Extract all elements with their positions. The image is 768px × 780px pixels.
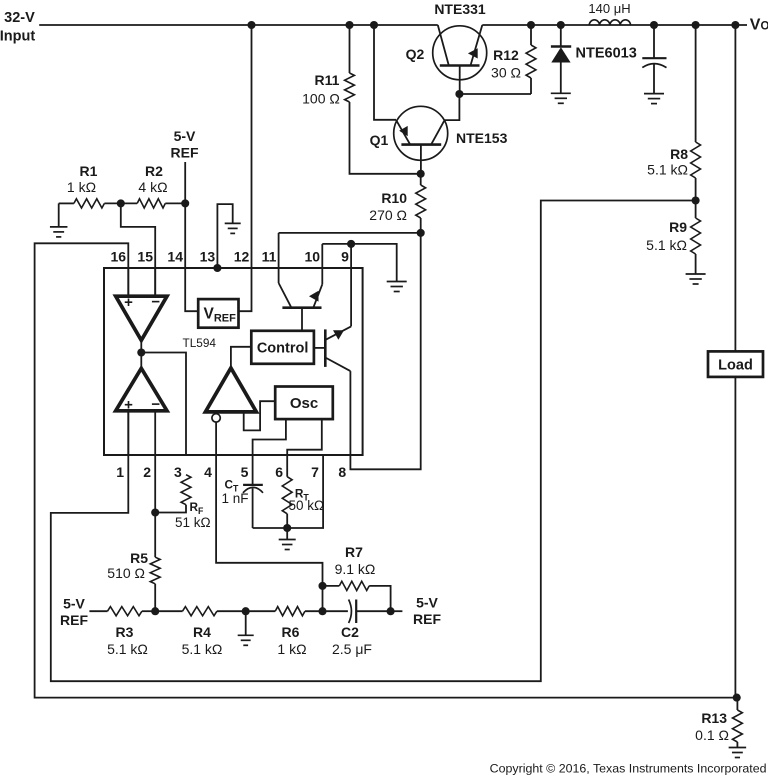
svg-text:R11: R11 xyxy=(315,72,340,88)
svg-text:R7: R7 xyxy=(345,544,363,560)
wire Load to R13 node xyxy=(734,377,736,698)
transistor internal T1 xyxy=(279,283,323,331)
node R10 bottom junction xyxy=(417,229,425,237)
ground R1 xyxy=(50,203,67,237)
wire R10 node to pin 8 xyxy=(350,233,420,469)
svg-text:510 Ω: 510 Ω xyxy=(107,565,145,581)
wire pin 2 into amp2 xyxy=(154,411,156,455)
wire R11 bottom to Q1 base node xyxy=(350,102,421,174)
svg-text:REF: REF xyxy=(171,145,199,161)
transistor Q1 xyxy=(370,106,508,174)
node pin 13 junction on IC edge xyxy=(213,264,221,272)
svg-text:R12: R12 xyxy=(493,47,519,63)
node R4 R6 ground junction xyxy=(242,607,250,615)
svg-text:Q1: Q1 xyxy=(370,132,389,148)
ground emitter common xyxy=(387,282,407,292)
resistor R3 xyxy=(107,607,148,657)
svg-text:2: 2 xyxy=(143,464,151,480)
ground R4 R6 node xyxy=(238,611,254,645)
resistor R12 xyxy=(491,25,536,94)
svg-text:9.1 kΩ: 9.1 kΩ xyxy=(335,561,376,577)
node pin 2 RF junction xyxy=(151,508,159,516)
svg-text:+: + xyxy=(124,294,133,311)
node R1 R2 junction xyxy=(117,199,125,207)
svg-text:R2: R2 xyxy=(145,163,163,179)
svg-text:TL594: TL594 xyxy=(183,336,217,350)
resistor R10 xyxy=(369,174,425,233)
node switch node junction diode xyxy=(557,21,565,29)
svg-text:Q2: Q2 xyxy=(406,46,425,62)
svg-text:R5: R5 xyxy=(130,550,148,566)
IC TL594 body xyxy=(104,268,363,455)
svg-text:R1: R1 xyxy=(80,163,98,179)
svg-text:12: 12 xyxy=(234,249,250,265)
resistor R1 xyxy=(59,163,121,208)
svg-text:5.1 kΩ: 5.1 kΩ xyxy=(182,641,223,657)
wire pin 7 to ground node xyxy=(287,455,323,528)
capacitor C2 xyxy=(323,600,391,658)
node R2 5-V REF junction xyxy=(181,199,189,207)
svg-text:NTE331: NTE331 xyxy=(434,1,486,17)
resistor R6 xyxy=(275,607,306,657)
wire pin 4 DTC xyxy=(215,422,217,456)
wire amp outputs feedback stem xyxy=(140,340,142,368)
wire pin 15 into amp1 xyxy=(154,268,156,296)
wire 5-V REF to pin 14 VREF xyxy=(185,162,198,311)
op-amp error amplifier 2 xyxy=(116,368,167,413)
svg-text:R6: R6 xyxy=(282,624,300,640)
wire R1-R2 junction to pin 15 xyxy=(121,203,155,296)
resistor R4 xyxy=(182,607,223,657)
wire pin 10 emitter T1 xyxy=(321,244,323,284)
inductor L1 140uH xyxy=(588,1,630,25)
resistor R8 xyxy=(647,25,700,201)
ground R9 xyxy=(686,274,706,284)
op-amp error amplifier 1 xyxy=(116,294,167,341)
wire ground node to R6 xyxy=(246,610,276,612)
svg-text:1 nF: 1 nF xyxy=(222,491,249,506)
node Vo terminal junction xyxy=(731,21,739,29)
svg-text:1 kΩ: 1 kΩ xyxy=(277,641,306,657)
load box xyxy=(708,351,763,377)
svg-text:Copyright © 2016, Texas Instru: Copyright © 2016, Texas Instruments Inco… xyxy=(490,762,767,776)
node 5-V REF bottom-right label xyxy=(413,595,441,628)
wire pin 1 into amp2 xyxy=(127,411,129,455)
resistor R13 xyxy=(695,698,742,748)
resistor RT xyxy=(282,477,324,528)
resistor R9 xyxy=(646,201,700,275)
svg-text:1: 1 xyxy=(116,464,124,480)
node R6 C2 R7 junction xyxy=(318,607,326,615)
node Q1 base junction xyxy=(417,170,425,178)
wire pin 16 into amp1 xyxy=(127,268,129,296)
wire pin 9 emitter T2 xyxy=(350,244,352,327)
wire junction to R4 xyxy=(155,610,182,612)
resistor R2 xyxy=(121,163,185,208)
svg-text:4 kΩ: 4 kΩ xyxy=(138,179,167,195)
svg-text:Load: Load xyxy=(718,358,753,374)
node rail junction to R11 xyxy=(345,21,353,29)
node R7 left junction xyxy=(318,582,326,590)
resistor R11 xyxy=(302,25,354,107)
ground pin 13 xyxy=(225,223,241,233)
node R13 top junction xyxy=(733,694,741,702)
svg-text:5.1 kΩ: 5.1 kΩ xyxy=(647,162,688,178)
copyright text xyxy=(490,762,767,776)
svg-text:5-V: 5-V xyxy=(174,128,196,144)
svg-text:6: 6 xyxy=(275,464,283,480)
svg-text:2.5 μF: 2.5 μF xyxy=(332,641,372,657)
wire Osc to pin 5 CT xyxy=(253,419,286,485)
svg-text:4: 4 xyxy=(204,464,212,480)
wire feedback to pin 3 xyxy=(141,353,186,456)
comparator PWM xyxy=(205,368,256,422)
node feedback junction xyxy=(137,348,145,356)
svg-text:270 Ω: 270 Ω xyxy=(369,207,407,223)
wire Vo to Load xyxy=(734,25,736,351)
wire R10 node to pin 11 xyxy=(279,232,421,234)
svg-text:5.1 kΩ: 5.1 kΩ xyxy=(107,641,148,657)
node R3 R4 R5 junction xyxy=(151,607,159,615)
node switch node junction R12 xyxy=(527,21,535,29)
svg-text:50 kΩ: 50 kΩ xyxy=(289,498,325,513)
wire 32-V rail right section (switch node to Vo) xyxy=(482,24,747,26)
svg-text:7: 7 xyxy=(311,464,319,480)
wire pin 12 VCC from rail xyxy=(239,25,252,311)
block Control xyxy=(251,331,314,364)
wire pin 13 to ground xyxy=(217,204,232,268)
svg-text:R13: R13 xyxy=(701,710,727,726)
node pin 9 junction xyxy=(347,240,355,248)
svg-text:Osc: Osc xyxy=(290,395,318,412)
svg-text:5-V: 5-V xyxy=(63,596,85,612)
node Vo label xyxy=(750,17,768,34)
svg-text:32-V: 32-V xyxy=(4,10,35,26)
svg-text:10: 10 xyxy=(305,249,321,265)
wire feedback divider to pin 1 loop xyxy=(51,201,696,682)
svg-text:Control: Control xyxy=(257,341,309,357)
svg-text:Input: Input xyxy=(0,29,35,45)
wire R3 to junction xyxy=(142,610,155,612)
svg-text:51 kΩ: 51 kΩ xyxy=(175,515,211,530)
wire R4 to ground node xyxy=(217,610,246,612)
svg-text:5-V: 5-V xyxy=(416,595,438,611)
capacitor output filter xyxy=(642,25,666,93)
svg-text:11: 11 xyxy=(262,249,277,265)
node rail junction to Q1 emitter xyxy=(370,21,378,29)
pin numbers bottom 1-8 xyxy=(116,464,346,480)
svg-text:R4: R4 xyxy=(193,624,211,640)
svg-text:140 μH: 140 μH xyxy=(588,1,630,16)
block VREF xyxy=(198,299,238,328)
ground CT RT xyxy=(279,528,296,550)
svg-text:14: 14 xyxy=(167,249,183,265)
svg-text:8: 8 xyxy=(338,464,346,480)
wire R12 bottom to Q2 base xyxy=(459,93,531,95)
wire Q1 collector to Q2 base node xyxy=(445,94,460,120)
wire 32-V input rail left section xyxy=(39,24,438,26)
capacitor CT xyxy=(222,478,264,529)
wire pin 11 collector T1 xyxy=(278,233,280,283)
node C2 R7 5-V REF junction xyxy=(387,607,395,615)
wire to right 5-V REF xyxy=(391,610,403,612)
ground diode xyxy=(551,93,571,103)
svg-text:NTE153: NTE153 xyxy=(456,130,508,146)
svg-text:R8: R8 xyxy=(670,146,688,162)
svg-text:5.1 kΩ: 5.1 kΩ xyxy=(646,237,687,253)
resistor R7 xyxy=(323,544,391,611)
wire CT bottom to ground node xyxy=(253,527,288,529)
svg-text:5: 5 xyxy=(241,464,249,480)
wire Q1 emitter to rail xyxy=(374,25,396,120)
svg-text:R3: R3 xyxy=(116,624,134,640)
resistor R5 xyxy=(107,455,160,611)
svg-text:15: 15 xyxy=(137,249,153,265)
svg-text:16: 16 xyxy=(111,249,127,265)
wire R6 to C2 node xyxy=(305,610,323,612)
svg-text:100 Ω: 100 Ω xyxy=(302,91,340,107)
svg-text:9: 9 xyxy=(341,249,349,265)
pin numbers top 16-9 xyxy=(111,249,350,265)
node R8 R9 junction xyxy=(692,196,700,204)
svg-text:REF: REF xyxy=(60,612,88,628)
node output junction R8 xyxy=(692,21,700,29)
svg-text:R10: R10 xyxy=(381,190,407,206)
wire comparator input from Osc xyxy=(244,401,276,430)
svg-text:0.1 Ω: 0.1 Ω xyxy=(695,727,729,743)
wire 5-V REF to R3 xyxy=(89,610,107,612)
svg-text:C2: C2 xyxy=(341,624,359,640)
node 32-V Input terminal xyxy=(0,10,35,45)
transistor Q2 xyxy=(406,1,487,94)
svg-text:REF: REF xyxy=(413,611,441,627)
svg-text:30 Ω: 30 Ω xyxy=(491,65,521,81)
node CT RT pin7 ground junction xyxy=(283,524,291,532)
svg-text:13: 13 xyxy=(200,249,216,265)
ground R13 xyxy=(729,748,747,758)
wire comparator output to Control xyxy=(231,347,251,368)
wire R7 node down to C2 node xyxy=(322,586,324,611)
node 5-V REF bottom-left label xyxy=(60,596,88,629)
wire pin 16 current-sense loop xyxy=(35,243,737,697)
svg-text:R9: R9 xyxy=(669,219,687,235)
block Osc xyxy=(275,387,333,420)
node 5-V REF top label xyxy=(171,128,199,161)
svg-text:3: 3 xyxy=(174,464,182,480)
svg-text:NTE6013: NTE6013 xyxy=(576,46,637,62)
transistor internal T2 xyxy=(314,326,351,371)
node rail junction to pin 12 xyxy=(247,21,255,29)
wire T2 collector to pin 8 xyxy=(349,371,351,455)
wire pin 4 to R7 node xyxy=(216,455,322,586)
node Q2 base junction xyxy=(455,90,463,98)
svg-text:−: − xyxy=(151,396,160,413)
wire pins 10 and 9 to ground xyxy=(322,244,396,282)
node output node junction capacitor xyxy=(650,21,658,29)
diode NTE6013 xyxy=(551,25,637,93)
svg-text:1 kΩ: 1 kΩ xyxy=(67,179,96,195)
ground output capacitor xyxy=(644,94,664,104)
wire Osc to pin 6 RT xyxy=(287,419,322,477)
resistor RF xyxy=(155,475,210,530)
